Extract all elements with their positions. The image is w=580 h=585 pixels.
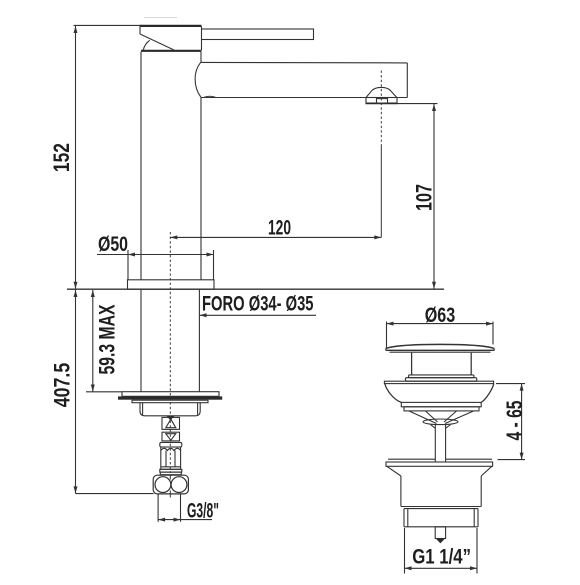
dim 407.5 arrow up	[74, 290, 78, 297]
aerator notch	[377, 99, 388, 104]
drain dim D63 extension right	[492, 322, 494, 345]
drain dome bottom	[386, 349, 495, 351]
nut inner facet right	[197, 403, 199, 415]
dim D50 extension left	[127, 250, 129, 280]
dim 107 vertical line	[433, 104, 435, 289]
body right edge upper	[200, 52, 202, 63]
aerator centerline dashed	[380, 71, 382, 146]
svg-text:G3/8": G3/8"	[187, 499, 219, 523]
drain flange top lip left	[388, 458, 435, 460]
connector circle right	[171, 477, 187, 493]
dim D50 extension right	[213, 250, 215, 280]
body right edge lower	[200, 97, 202, 279]
dim 4-65 arrow up	[520, 384, 524, 391]
svg-text:407.5: 407.5	[50, 363, 75, 408]
countertop line	[67, 288, 444, 290]
faint guide line above cap	[144, 17, 177, 19]
drain flange shoulder right	[481, 466, 492, 476]
dim G1 1/4 line	[405, 567, 478, 569]
svg-text:4 - 65: 4 - 65	[502, 401, 527, 441]
dim 152 arrow up	[74, 26, 78, 33]
shank left edge	[140, 289, 142, 392]
up triangle	[166, 419, 176, 428]
hose scallops top	[161, 448, 181, 450]
drain dim D63 extension left	[386, 322, 388, 348]
hose collar bottom 1	[160, 469, 182, 472]
hose rib left	[165, 451, 167, 467]
drain drip pin	[435, 527, 445, 539]
dim 4-65 extension top	[496, 383, 525, 385]
svg-text:59.3 MAX: 59.3 MAX	[95, 304, 120, 374]
svg-text:107: 107	[412, 184, 437, 211]
faucet cap top edge	[140, 25, 202, 27]
hose collar top	[160, 442, 182, 447]
dim G1 1/4 arrow right	[470, 566, 477, 570]
aerator dome	[366, 87, 397, 97]
dim G3/8 extension left	[157, 494, 159, 522]
drain thread top	[404, 508, 478, 510]
aerator bottom thick	[366, 102, 398, 104]
drain thread bottom	[404, 526, 478, 528]
dim 107 extension top	[397, 103, 438, 105]
spout joint bulge	[195, 62, 201, 97]
faucet cap bottom edge	[141, 50, 202, 52]
rod tip black triangle	[167, 416, 175, 420]
drain neck right outer	[470, 353, 472, 375]
centerline dash over block bottom	[169, 491, 171, 498]
dim 107 arrow down	[432, 282, 436, 289]
drain dome under lip	[390, 351, 491, 353]
hose rib right	[174, 451, 176, 467]
dim G3/8 arrow left	[158, 518, 165, 522]
svg-text:Ø50: Ø50	[98, 232, 128, 256]
FORO leader underline	[199, 314, 316, 316]
spout bottom bump	[204, 96, 217, 97]
drain rim band 2	[404, 407, 479, 411]
drain thread right inner	[473, 509, 475, 527]
faucet cap diagonal	[140, 34, 174, 50]
drain dome cap top	[386, 344, 495, 348]
dim 4-65 arrow down	[520, 453, 524, 460]
body centerline dashed	[169, 232, 171, 473]
drain spoke outer right	[445, 411, 474, 424]
dim 59.3 MAX vertical line	[92, 290, 94, 392]
dim 152 vertical line	[75, 26, 77, 289]
dim G3/8 arrow right	[174, 518, 181, 522]
dim 120 arrow left	[170, 235, 177, 239]
dim 4-65 vertical line	[521, 384, 523, 460]
dim G3/8 extension right	[180, 494, 182, 522]
aerator body	[366, 98, 397, 104]
spout bottom line	[201, 97, 407, 99]
drain basin plate	[384, 381, 493, 383]
down triangle	[166, 434, 176, 441]
svg-text:120: 120	[268, 217, 291, 240]
thin plate under band	[132, 400, 208, 403]
dim 120 arrow right	[374, 235, 381, 239]
drain spoke inner left	[426, 411, 438, 422]
dim 59.3 MAX arrow down	[91, 385, 95, 392]
drain dome right side	[493, 349, 495, 351]
drain pin tip	[436, 539, 445, 544]
spout right edge	[406, 63, 408, 98]
svg-text:152: 152	[49, 143, 74, 172]
drain spoke outer left	[409, 411, 437, 424]
drain body left	[400, 476, 402, 507]
svg-text:Ø63: Ø63	[425, 303, 456, 327]
drain stem right	[445, 425, 447, 462]
rod box up	[162, 417, 180, 429]
FORO leader arrow	[200, 313, 207, 317]
drain skirt left curve	[385, 384, 402, 403]
faucet cap right edge	[201, 26, 203, 50]
drain dim D63 arrow left	[387, 322, 394, 326]
dim 407.5 extension line bottom	[76, 493, 154, 495]
drain body bottom	[401, 506, 481, 508]
dim D50 arrow right	[207, 253, 214, 257]
drain cone left	[431, 425, 436, 429]
lever bar	[202, 29, 314, 40]
connector circle left	[155, 477, 171, 493]
drain thread left inner	[407, 509, 409, 527]
hose scallops bottom	[161, 466, 181, 468]
drain collar ring lower tier	[405, 378, 476, 382]
base flange	[128, 280, 215, 289]
dim D50 line	[97, 254, 214, 256]
spout top line	[201, 61, 408, 64]
drain dim D63 arrow right	[486, 322, 493, 326]
dim G1 1/4 extension left	[404, 528, 406, 574]
washer black band	[118, 396, 222, 399]
drain rim band 1	[401, 402, 481, 406]
nut inner facet left	[142, 403, 144, 415]
dim 407.5 vertical line	[75, 290, 77, 494]
dim 407.5 label	[50, 363, 75, 408]
drain thread left outer	[403, 509, 405, 527]
dim 59.3 MAX arrow up	[91, 290, 95, 297]
svg-text:FORO Ø34- Ø35: FORO Ø34- Ø35	[202, 291, 314, 315]
body left edge	[140, 52, 142, 280]
hose body	[161, 447, 181, 469]
centerline dash over block top	[169, 475, 171, 479]
dim 107 label	[412, 184, 437, 211]
washer plate	[122, 392, 219, 397]
drain dome left side	[385, 349, 387, 351]
drain dim D63 line	[387, 323, 494, 325]
dim 152 extension line top	[74, 24, 142, 26]
drain body right	[480, 476, 482, 507]
shank right edge	[198, 289, 200, 392]
hose collar bottom 2	[160, 472, 181, 475]
mounting nut	[140, 403, 200, 416]
dim 407.5 arrow down	[74, 486, 78, 493]
dim 152 label	[49, 143, 74, 172]
drain flange top lip right	[446, 458, 492, 460]
drain skirt right curve	[481, 384, 494, 403]
dim 120 line	[170, 236, 381, 238]
dim G3/8 line	[158, 519, 212, 521]
drain stem left	[434, 425, 436, 462]
faucet cap arc	[143, 40, 149, 50]
drain neck left outer	[411, 353, 413, 375]
aerator extension to dim	[380, 145, 382, 237]
drain flange shoulder left	[387, 466, 401, 476]
drain spoke inner right	[444, 411, 457, 422]
svg-text:G1 1/4”: G1 1/4”	[412, 545, 471, 569]
dim D50 arrow left	[128, 253, 135, 257]
connector block	[153, 475, 188, 494]
dim 59.3 MAX extension tick	[86, 391, 122, 393]
dim G1 1/4 extension right	[476, 528, 478, 574]
drain flange plate	[386, 462, 493, 466]
drain stem collar ellipse	[423, 419, 458, 425]
dim 4-65 label	[502, 401, 527, 441]
dim 107 arrow up	[432, 104, 436, 111]
rod box down	[162, 432, 180, 441]
dim G1 1/4 arrow left	[405, 566, 412, 570]
dim 4-65 extension bottom	[498, 459, 526, 461]
faucet cap left edge	[139, 26, 141, 34]
dim 152 arrow down	[74, 282, 78, 289]
drain cone right	[445, 425, 450, 429]
dim 59.3 MAX label	[95, 304, 120, 374]
drain thread right outer	[477, 509, 479, 527]
drain collar ring upper tier	[409, 375, 475, 378]
